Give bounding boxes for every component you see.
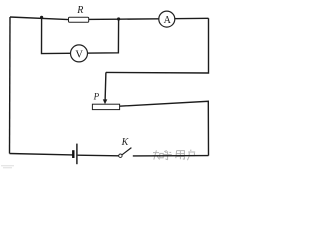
wire left	[9, 17, 12, 154]
svg-text:V: V	[75, 49, 83, 60]
wire top	[10, 17, 209, 20]
svg-text:K: K	[121, 137, 130, 148]
wire bottom left	[10, 154, 73, 155]
switch K	[119, 148, 132, 158]
wire right upper segment	[106, 18, 209, 73]
wire rheostat to right	[120, 101, 209, 155]
wire battery to switch	[78, 154, 119, 157]
junction node left	[40, 16, 43, 19]
resistor R	[69, 17, 89, 22]
wiper arrowhead	[103, 99, 108, 104]
svg-text:A: A	[164, 15, 172, 26]
wire voltmeter branch	[42, 17, 119, 53]
svg-text:R: R	[76, 5, 83, 16]
wire switch to right	[133, 155, 209, 157]
wire wiper vertical	[104, 72, 107, 100]
junction node right	[117, 17, 120, 20]
rheostat P	[92, 104, 119, 109]
svg-text:P: P	[93, 92, 100, 102]
voltmeter V	[71, 45, 88, 62]
ammeter A	[159, 11, 175, 27]
battery	[73, 144, 77, 165]
